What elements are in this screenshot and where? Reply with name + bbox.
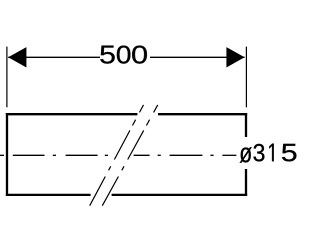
pipe outline top edge (left of break) bbox=[6, 113, 138, 115]
centerline (dash-dot axis) bbox=[0, 154, 236, 156]
dimension label 500 bbox=[100, 46, 147, 64]
extension line right bbox=[245, 47, 247, 108]
break line 2 (right diagonal) bbox=[102, 105, 157, 206]
dimension line left segment bbox=[8, 56, 100, 58]
pipe outline bottom edge (right of break) bbox=[112, 194, 248, 196]
pipe outline right edge (above label) bbox=[245, 113, 247, 137]
pipe outline top edge (right of break) bbox=[158, 113, 247, 115]
pipe outline right edge (below label) bbox=[245, 169, 247, 196]
arrowhead right bbox=[226, 47, 244, 67]
arrowhead left bbox=[8, 47, 26, 67]
diameter label ø315 bbox=[240, 144, 297, 163]
pipe outline left edge bbox=[6, 113, 8, 196]
pipe outline bottom edge (left of break) bbox=[6, 194, 91, 196]
break line 1 (left diagonal) bbox=[90, 105, 144, 206]
extension line left bbox=[6, 47, 8, 108]
dimension line right segment bbox=[150, 56, 245, 58]
